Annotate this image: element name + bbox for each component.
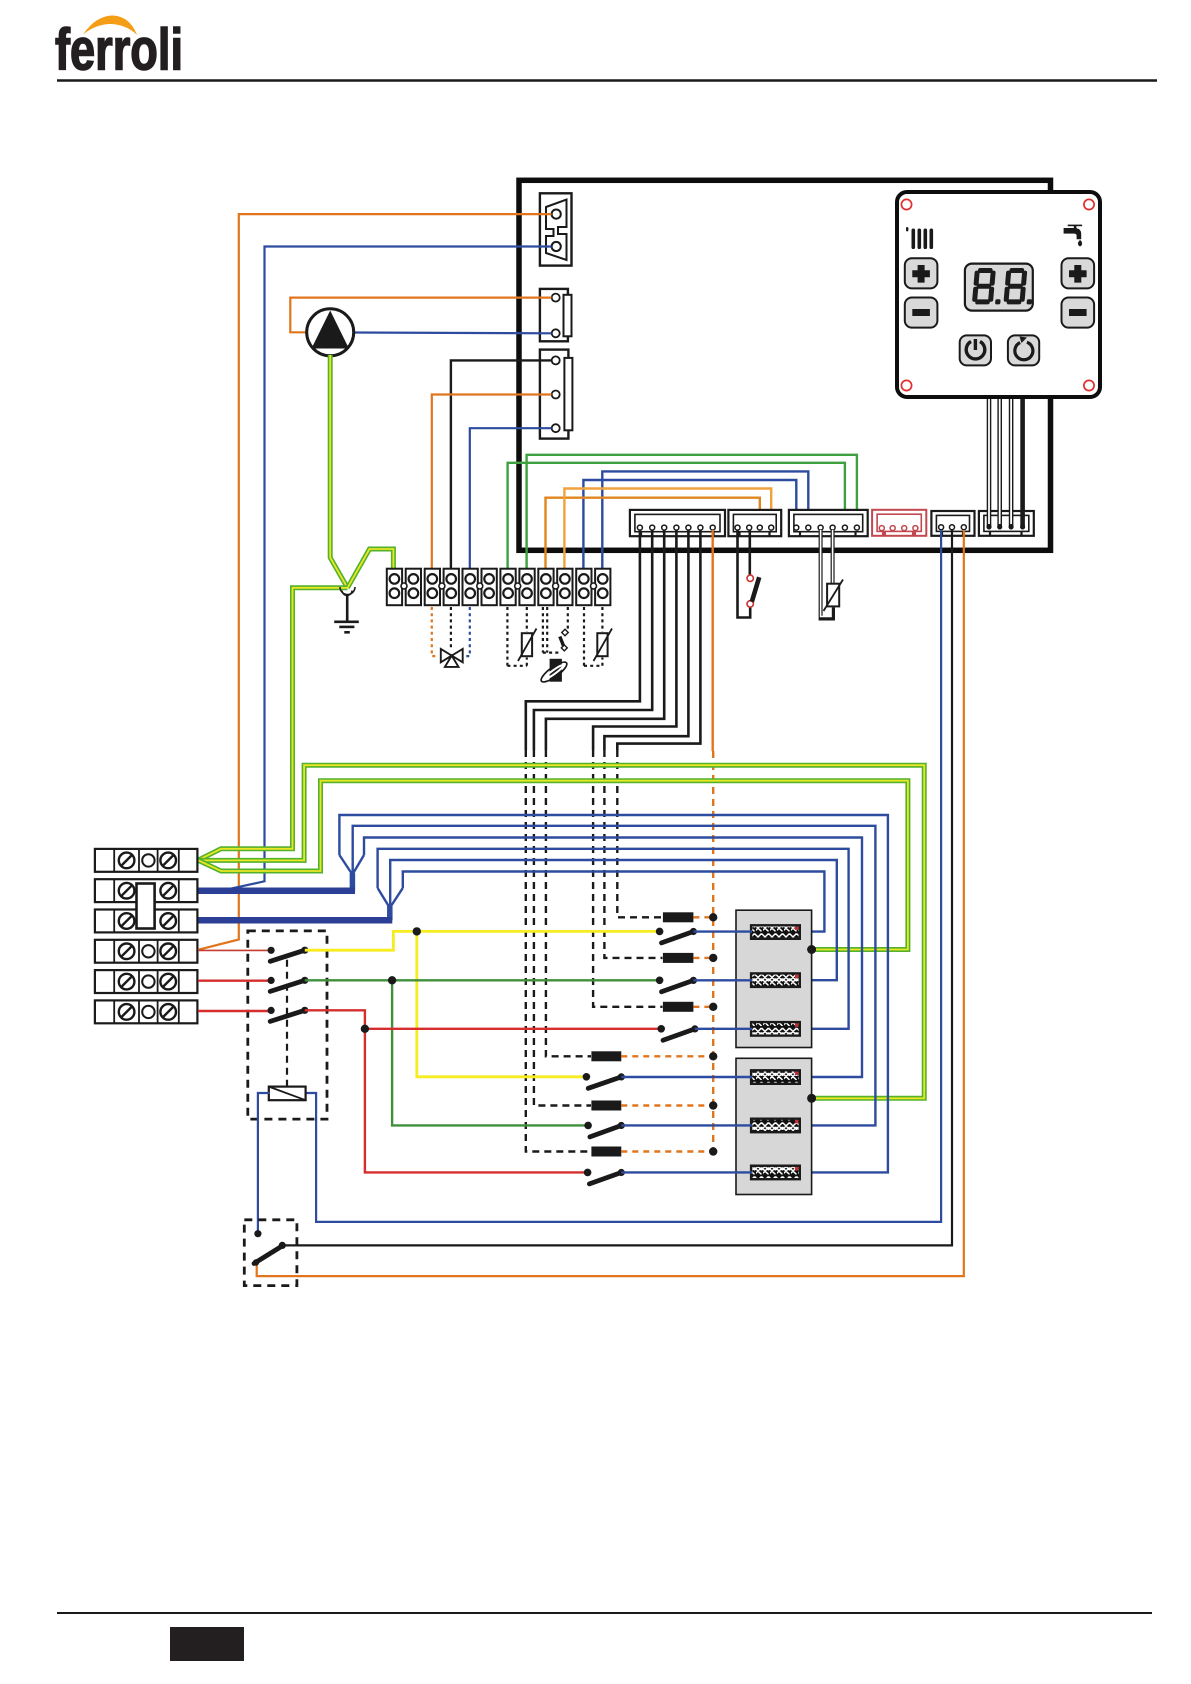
dashed orange bus from J2 pin7 xyxy=(712,751,714,1153)
row4 orange dash to bus xyxy=(621,1055,710,1057)
room thermostat dashed box xyxy=(248,931,327,1119)
wire blue return R2 xyxy=(390,860,837,980)
row6 blue link to R6 xyxy=(621,1171,752,1173)
button power xyxy=(960,335,991,365)
thermistor symbol box1 xyxy=(518,629,537,662)
wire blue pump to X2 pin2 xyxy=(354,331,552,334)
connector J2 (7-pin) xyxy=(630,510,725,536)
dashed relay drive wire 4 (to K3 bar) xyxy=(593,750,662,1007)
row5 lever xyxy=(590,1122,625,1137)
wire blue return R1 xyxy=(403,872,825,932)
connector J3 (4-pin) xyxy=(728,510,781,536)
row6 lever xyxy=(589,1169,625,1184)
X1 pin 1 xyxy=(552,210,561,219)
wire blue return R5 xyxy=(353,826,876,1126)
relay coil xyxy=(269,1087,306,1101)
heater block A xyxy=(736,910,812,1047)
wire red block4 to switch S1 xyxy=(198,949,271,951)
connector X1 outer xyxy=(540,193,572,265)
footer page box xyxy=(170,1627,244,1661)
logo ferroli xyxy=(55,16,183,83)
resistor R6 xyxy=(751,1166,800,1180)
thermostat TL contacts xyxy=(747,601,753,607)
flow switch lever and contacts xyxy=(560,629,568,651)
row1 blue link to R1 xyxy=(693,930,752,932)
row3 terminal dot xyxy=(657,1025,665,1033)
row2 orange dash to bus xyxy=(693,957,710,959)
row1 lever xyxy=(662,928,698,943)
thermistor symbol box3 xyxy=(594,629,613,662)
wire red S3 to row3 and row6 xyxy=(305,1010,660,1029)
dashed relay drive wire 2 (to K5 bar) xyxy=(534,750,591,1106)
orange wire J2 pin7 xyxy=(712,530,714,751)
wire red block6 to switch S3 xyxy=(198,1010,271,1012)
wire blue return R4 xyxy=(364,838,862,1078)
footer rule xyxy=(57,1612,1152,1614)
wire orange J6 pin3 to flue switch xyxy=(257,530,964,1276)
row2 contact bar K2 xyxy=(663,953,694,963)
X1 pin 2 xyxy=(552,242,561,251)
wire red block5 to switch S2 xyxy=(198,980,271,982)
wire green strip7 to J4 pin5 xyxy=(508,463,845,570)
thermostat TL lever xyxy=(752,577,759,602)
button plus right xyxy=(1062,258,1095,288)
switch S2 xyxy=(268,977,309,992)
X3 pin 2 xyxy=(552,391,560,399)
row3 bus junction xyxy=(709,1003,717,1011)
tap icon xyxy=(1064,225,1083,247)
X2 pin 1 xyxy=(552,294,560,302)
resistor R5 xyxy=(751,1119,800,1133)
left terminal block 1 (earth) xyxy=(95,849,197,872)
resistor R4 xyxy=(751,1070,800,1084)
row1 bus junction xyxy=(709,913,717,921)
J6 pins xyxy=(939,525,967,530)
row4 bus junction xyxy=(709,1052,717,1060)
row3 orange dash to bus xyxy=(693,1006,710,1008)
dashed blue stub strip5 to valve xyxy=(465,607,470,656)
diverter valve symbol xyxy=(441,649,463,667)
wire red vertical to row 6 xyxy=(365,1029,586,1173)
wire blue strip12 to J4 pin2 xyxy=(602,471,808,570)
wire green-yellow loop inner (to heater block A) xyxy=(198,781,908,950)
junction green xyxy=(388,976,396,984)
7-segment digits 8.8. xyxy=(972,268,1035,304)
dashed relay drive wire 6 (to K1 bar) xyxy=(617,750,662,917)
wire green-yellow pump to earth xyxy=(330,355,347,588)
wire orange to X3 pin2 xyxy=(432,395,552,571)
row6 orange dash to bus xyxy=(621,1150,710,1152)
wire green-yellow loop outer (to heater block B) xyxy=(198,765,924,1098)
wire blue strip11 to J4 pin1 xyxy=(583,480,796,570)
wire blue to X1 pin2 xyxy=(220,247,552,892)
header rule xyxy=(57,79,1157,82)
J7 pin dots xyxy=(986,524,1025,529)
control panel DBM07 xyxy=(897,192,1100,397)
wire green-yellow earth to terminal strip xyxy=(348,549,394,588)
wire light-orange strip10 to J3 pin4 xyxy=(564,489,771,571)
wire blue J6 pin1 to relay coil xyxy=(305,530,942,1222)
button plus left xyxy=(905,258,938,288)
DHW sensor dashed box 3 xyxy=(584,607,602,666)
row4 lever xyxy=(588,1073,625,1088)
button reset xyxy=(1008,335,1039,365)
row6 bus junction xyxy=(709,1147,717,1155)
row2 lever xyxy=(662,977,698,992)
row6 contact bar K6 xyxy=(591,1147,621,1157)
flue pressure switch dashed box xyxy=(244,1220,297,1286)
X3 pin 3 xyxy=(552,424,560,432)
left terminal block 4 xyxy=(95,940,197,963)
row2 terminal dot xyxy=(656,977,664,985)
heater block B xyxy=(736,1058,812,1194)
flow switch dashed box 2 xyxy=(543,607,568,653)
row5 contact bar K5 xyxy=(591,1101,621,1111)
row3 lever xyxy=(663,1025,699,1040)
radiator icon xyxy=(906,227,933,249)
display window xyxy=(965,264,1033,311)
connector X3 outer xyxy=(540,350,573,439)
button minus left xyxy=(905,298,938,328)
connector feet marks xyxy=(641,531,1022,535)
svg-text:ferroli: ferroli xyxy=(55,18,183,83)
X3 pin 1 xyxy=(552,356,560,364)
wire orange pump to X2 pin1 xyxy=(290,298,551,333)
wire yellow S1 to row1 and row4 xyxy=(305,931,658,950)
dashed mechanical link xyxy=(286,960,288,1086)
dashed relay drive wire 1 (to K6 bar) xyxy=(526,750,591,1152)
X2 pin 2 xyxy=(552,329,560,337)
display cable wires panel to J7 xyxy=(989,397,1023,526)
left terminal block 3 (L) xyxy=(95,910,197,933)
dashed black stub strip4 to valve xyxy=(450,607,452,650)
junction heater A green xyxy=(807,945,816,954)
J4 pins xyxy=(794,525,860,530)
terminal strip M1 (12 poles) xyxy=(387,569,611,606)
left terminal block 2 (N) xyxy=(95,879,197,902)
outdoor sensor dashed box 1 xyxy=(507,607,526,666)
resistor R1 xyxy=(751,925,800,939)
row4 terminal dot xyxy=(583,1073,591,1081)
junction red xyxy=(361,1025,369,1033)
ground symbol xyxy=(334,594,359,632)
wire orange L-N supply to X1 pin1 xyxy=(199,214,552,950)
wire black J6 pin2 to flue switch xyxy=(283,530,952,1245)
wire blue return R3 xyxy=(378,849,849,1029)
row3 blue link to R3 xyxy=(695,1028,752,1030)
board U1 outline xyxy=(519,180,1051,550)
earth crimp xyxy=(340,587,355,595)
connector J5 (red, unused) xyxy=(872,510,926,536)
wire blue coil left to flue box xyxy=(258,1093,270,1232)
button minus right xyxy=(1062,298,1095,328)
wire blue return R6 xyxy=(339,815,888,1172)
wire green-yellow earth to left terminal block 1 xyxy=(198,588,348,860)
resistor R3 xyxy=(751,1022,800,1036)
J5 pins xyxy=(879,526,918,531)
black wire staircase J2 pin2 xyxy=(534,530,652,750)
row1 contact bar K1 xyxy=(663,912,694,922)
connector J4 (6-pin) xyxy=(789,510,868,536)
left terminal block 6 xyxy=(95,1000,197,1023)
row3 contact bar K3 xyxy=(663,1002,694,1012)
junction heater B green xyxy=(807,1094,816,1103)
row5 bus junction xyxy=(709,1101,717,1109)
sensor NTC wires from J4 pins 3-4 (double line) xyxy=(821,530,833,619)
row2 blue link to R2 xyxy=(693,979,752,981)
left terminal block 5 xyxy=(95,970,197,993)
wire green strip8 to J4 pin6 xyxy=(527,455,857,570)
row5 orange dash to bus xyxy=(621,1104,710,1106)
J3 pins xyxy=(735,525,774,530)
row1 orange dash to bus xyxy=(693,916,710,918)
wire green S2 to row2 and row5 xyxy=(305,979,658,981)
resistor R2 xyxy=(751,973,800,987)
row1 terminal dot xyxy=(656,928,664,936)
fuse between blocks 2-3 xyxy=(137,884,155,929)
black wire staircase J2 pin5 xyxy=(604,530,688,750)
flue switch lever xyxy=(253,1242,286,1266)
row4 blue link to R4 xyxy=(621,1076,752,1078)
junction yellow xyxy=(413,927,421,935)
row5 blue link to R5 xyxy=(621,1124,752,1126)
pump P1 xyxy=(307,309,354,356)
flue switch junction dot xyxy=(254,1230,261,1237)
thick blue neutral bus to block 3 xyxy=(198,917,392,924)
black wire staircase J2 pin4 xyxy=(593,530,676,750)
blue funnel 1 into terminal block 2 xyxy=(339,855,364,891)
switch S3 xyxy=(268,1007,309,1022)
wire green vertical to row 5 xyxy=(392,980,586,1125)
J2 pins xyxy=(637,525,715,530)
black wire staircase J2 pin6 xyxy=(617,530,700,750)
black wire staircase J2 pin3 xyxy=(546,530,664,750)
row6 terminal dot xyxy=(584,1169,592,1177)
connector J7 (display, 4-pin) xyxy=(979,511,1034,536)
connector J6 (3-pin) xyxy=(931,511,974,536)
row4 contact bar K4 xyxy=(591,1051,621,1061)
thick blue neutral bus to block 2 xyxy=(198,887,355,894)
sensor NTC resistor symbol xyxy=(824,580,844,612)
wire black to X3 pin1 xyxy=(451,360,552,570)
wire orange strip9 to J3 pin3 xyxy=(546,498,760,570)
wire yellow vertical to row 4 xyxy=(417,931,585,1076)
dashed orange stub strip3 to valve xyxy=(432,607,439,656)
black wire staircase J2 pin1 xyxy=(526,530,640,750)
row2 bus junction xyxy=(709,954,717,962)
dashed relay drive wire 5 (to K2 bar) xyxy=(604,750,662,958)
flow turbine sensor xyxy=(539,659,570,685)
row5 terminal dot xyxy=(584,1122,592,1130)
switch S1 xyxy=(268,947,309,962)
panel screw holes xyxy=(901,199,1094,390)
blue funnel 2 into terminal block 3 xyxy=(378,888,403,920)
connector X2 outer xyxy=(540,289,572,341)
wire blue to X3 pin3 xyxy=(470,428,552,570)
dashed relay drive wire 3 (to K4 bar) xyxy=(546,750,591,1056)
thermostat TL wires from J3 pins 1-2 xyxy=(738,530,751,618)
